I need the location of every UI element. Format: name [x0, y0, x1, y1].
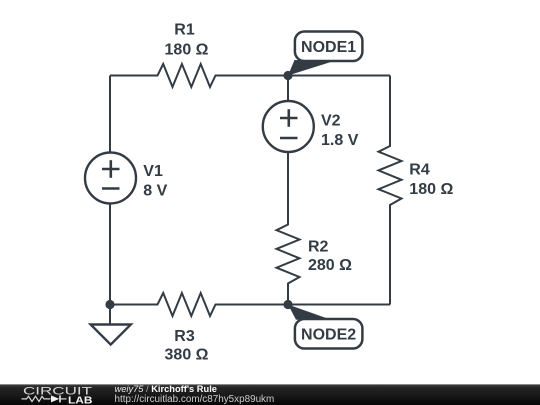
svg-text:8 V: 8 V [143, 183, 167, 200]
svg-text:R1: R1 [174, 21, 195, 38]
svg-text:180 Ω: 180 Ω [409, 181, 453, 198]
svg-text:1.8 V: 1.8 V [321, 132, 359, 149]
CircuitLab logo: resistor-diode glyph [22, 396, 51, 401]
node B junction dot bottom-left [105, 300, 114, 309]
svg-text:http://circuitlab.com/c87hy5xp: http://circuitlab.com/c87hy5xp89ukm [115, 394, 275, 405]
ground [109, 305, 111, 325]
svg-text:LAB: LAB [68, 394, 93, 405]
node C junction dot bottom-middle [283, 300, 292, 309]
svg-text:380 Ω: 380 Ω [165, 346, 209, 363]
voltage source V1 [85, 153, 136, 204]
svg-text:V1: V1 [143, 163, 163, 180]
svg-text:V2: V2 [321, 112, 341, 129]
svg-text:NODE2: NODE2 [301, 327, 356, 344]
node A junction dot top [283, 71, 292, 80]
wire middle vertical with resistor R2 [277, 76, 300, 305]
svg-text:weiy75 / Kirchoff's Rule: weiy75 / Kirchoff's Rule [115, 384, 217, 394]
wire right vertical with resistor R4 [379, 76, 402, 305]
svg-text:NODE1: NODE1 [301, 39, 356, 56]
wire left vertical [109, 76, 111, 305]
svg-text:R3: R3 [174, 328, 195, 345]
node NODE1 flag [288, 60, 334, 76]
node NODE2 flag [288, 305, 331, 320]
voltage source V2 [263, 101, 314, 152]
svg-text:R4: R4 [409, 162, 430, 179]
wire top with resistor R1 [110, 64, 390, 87]
svg-text:180 Ω: 180 Ω [165, 42, 209, 59]
svg-text:280 Ω: 280 Ω [308, 257, 352, 274]
svg-text:R2: R2 [308, 239, 329, 256]
wire bottom with resistor R3 [110, 293, 390, 316]
